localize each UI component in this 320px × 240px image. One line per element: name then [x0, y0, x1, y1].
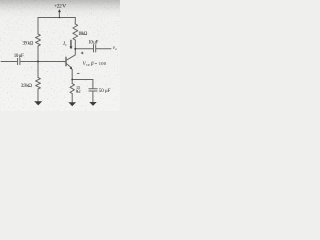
svg-text:10 kΩ: 10 kΩ [78, 32, 88, 37]
svg-text:+22 V: +22 V [54, 4, 66, 10]
svg-text:kΩ: kΩ [76, 89, 81, 94]
svg-text:10 μF: 10 μF [14, 54, 24, 59]
svg-text:CE: CE [86, 63, 90, 67]
svg-text:β: β [90, 62, 94, 67]
svg-text:50 μF: 50 μF [99, 89, 111, 94]
svg-text:3.9 kΩ: 3.9 kΩ [21, 84, 32, 89]
svg-text:10 μF: 10 μF [88, 40, 98, 45]
svg-text:= 100: = 100 [95, 61, 107, 66]
svg-text:39 kΩ: 39 kΩ [22, 41, 33, 46]
